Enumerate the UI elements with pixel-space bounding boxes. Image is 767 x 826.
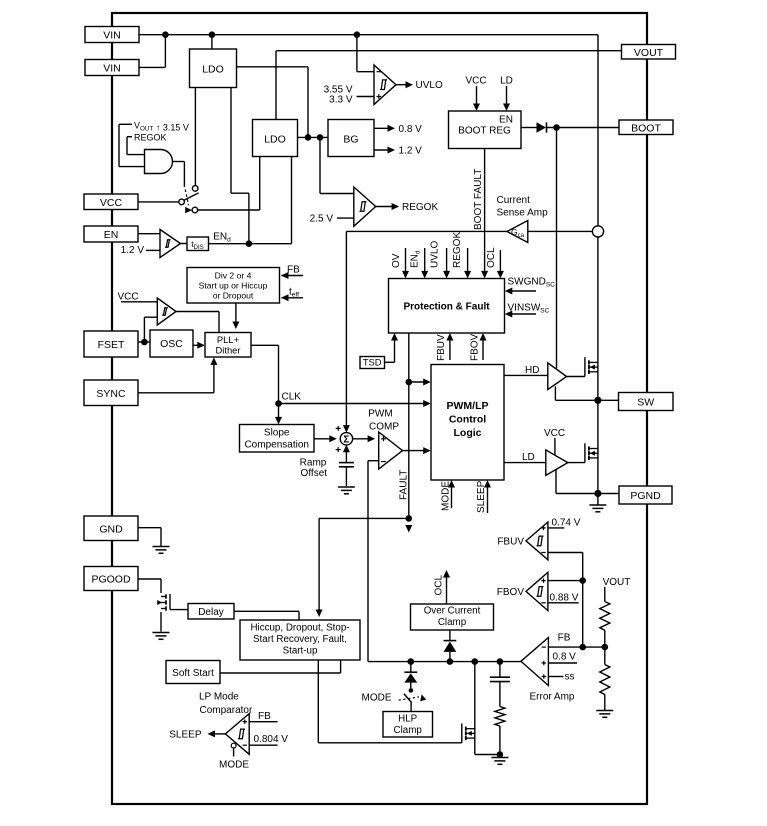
node FBOV tap — [579, 577, 586, 584]
node FAULT taps — [406, 379, 413, 386]
resistor feedback bottom — [600, 665, 610, 695]
svg-text:OCL: OCL — [434, 575, 445, 596]
svg-text:or Dropout: or Dropout — [213, 290, 254, 300]
svg-text:FBUV: FBUV — [497, 536, 524, 547]
wire COMP to PWM comparator minus — [368, 460, 379, 462]
wire SLEEP output — [211, 733, 225, 735]
wire AND inputs bracket REGOK — [127, 136, 132, 138]
wire REGOK comparator output — [376, 206, 396, 208]
wire FBUV stub into protection bottom — [449, 337, 451, 361]
switch VCC source select — [184, 193, 199, 200]
transistor HLP clamp FET — [466, 728, 475, 730]
diode over current clamp — [444, 642, 457, 652]
svg-text:Error Amp: Error Amp — [529, 692, 574, 703]
block BG bandgap — [328, 120, 374, 157]
comparator FSET VCC — [157, 298, 176, 325]
resistor COMP network — [495, 707, 505, 727]
node RC bottom — [497, 751, 504, 758]
comparator EN 1.2V — [160, 230, 181, 258]
svg-text:VIN: VIN — [103, 30, 121, 42]
wire HD driver return to SW — [554, 386, 556, 400]
svg-text:OCL: OCL — [486, 247, 497, 268]
svg-text:ss: ss — [565, 672, 575, 683]
svg-text:0.8 V: 0.8 V — [553, 652, 577, 663]
svg-text:FAULT: FAULT — [399, 470, 410, 500]
wire EN comparator to tDIS — [181, 243, 188, 245]
wire switch lower throw to LDO2 — [198, 209, 260, 211]
pin VCC — [84, 194, 138, 210]
ground feedback divider — [596, 710, 613, 712]
wire LDO1 to switch upper throw — [194, 88, 196, 186]
svg-text:FBOV: FBOV — [497, 587, 525, 598]
pin VIN (second) — [85, 60, 139, 76]
svg-text:Sense Amp: Sense Amp — [497, 208, 549, 219]
svg-text:LD: LD — [500, 76, 513, 87]
wire VOUT feed to internal LDO — [276, 50, 622, 52]
wire SLEEP stub into PWM logic — [487, 484, 489, 514]
wire PGND to pin and ground — [598, 493, 619, 495]
wire Div block to PLL — [235, 303, 237, 326]
svg-text:2.5 V: 2.5 V — [310, 214, 334, 225]
transistor PGOOD FET — [161, 596, 166, 598]
svg-text:SLEEP: SLEEP — [169, 729, 202, 740]
svg-text:PWM: PWM — [368, 408, 392, 419]
svg-text:VCC: VCC — [544, 428, 565, 439]
node COMP line junctions — [408, 658, 415, 665]
svg-text:Start up or Hiccup: Start up or Hiccup — [199, 280, 268, 290]
node FB — [579, 644, 586, 651]
wire teff stub to Div block — [282, 297, 304, 299]
wire FB node to divider — [548, 646, 604, 648]
svg-text:Current: Current — [497, 195, 531, 206]
block Protection & Fault — [389, 279, 505, 334]
wire FAULT to hiccup block — [319, 517, 409, 519]
wire mode clamp diode branch — [410, 662, 412, 673]
wire mode switch to HLP clamp — [410, 702, 412, 712]
svg-text:REGOK: REGOK — [402, 202, 438, 213]
wire FBOV stub into protection bottom — [482, 337, 484, 361]
comparator FBOV 0.88V — [526, 572, 548, 610]
wire FB column up to FBOV/FBUV — [582, 553, 584, 648]
svg-text:3.3 V: 3.3 V — [329, 95, 353, 106]
svg-text:REGOK: REGOK — [452, 232, 463, 268]
block LDO (VOUT) — [253, 120, 298, 157]
summing junction sigma — [340, 433, 352, 445]
svg-text:REGOK: REGOK — [134, 133, 167, 143]
block Div 2 or 4 — [187, 268, 280, 304]
svg-text:VIN: VIN — [103, 63, 121, 75]
svg-text:HD: HD — [525, 365, 539, 376]
wire ENd net — [209, 243, 292, 245]
svg-text:SYNC: SYNC — [96, 388, 126, 400]
wire FBOV ref stub — [548, 602, 579, 604]
wire PWM comparator output — [403, 450, 428, 452]
svg-text:BOOT FAULT: BOOT FAULT — [473, 169, 484, 230]
wire BOOT REG output to boot diode — [521, 127, 537, 129]
wire UVLO ref input — [357, 96, 375, 98]
wire FB stub to Div block — [282, 275, 304, 277]
svg-text:FBUV: FBUV — [436, 334, 447, 361]
svg-text:SW: SW — [637, 397, 654, 409]
svg-text:BOOT REG: BOOT REG — [458, 126, 511, 137]
wire summing to PWM comparator — [353, 438, 372, 440]
gate driver LD — [546, 450, 568, 476]
ground ramp offset — [338, 486, 355, 488]
pin SYNC — [84, 380, 138, 406]
block HLP Clamp — [383, 712, 433, 738]
svg-text:Slope: Slope — [264, 427, 290, 438]
wire boot rail to HD driver — [556, 128, 558, 369]
svg-text:LP Mode: LP Mode — [199, 692, 239, 703]
svg-text:PGOOD: PGOOD — [91, 574, 131, 586]
ground GND pin — [153, 546, 170, 548]
wire PLL output CLK — [251, 344, 279, 346]
svg-text:Soft Start: Soft Start — [172, 668, 214, 679]
AND gate VCC select — [145, 150, 173, 174]
wire VCC into BOOT REG — [476, 86, 478, 108]
wire PGOOD pin to fet — [138, 578, 161, 580]
wire LDO1 top feed — [211, 35, 213, 49]
outer chip boundary — [112, 13, 647, 804]
ground PGND — [589, 504, 606, 506]
svg-text:VOUT: VOUT — [634, 47, 664, 59]
gate driver HD — [548, 363, 567, 390]
comparator PWM COMP — [379, 432, 403, 469]
pin PGND — [619, 486, 672, 504]
svg-text:VOUT: VOUT — [603, 577, 631, 588]
wire HD to high side gate — [504, 374, 548, 376]
wire LD to low side gate — [504, 462, 546, 464]
diode mode clamp — [404, 671, 417, 673]
wire VIN rail to high side drain — [597, 237, 599, 400]
wire FSET comparator tap — [143, 317, 145, 342]
block TSD — [360, 357, 385, 369]
svg-text:FB: FB — [258, 711, 271, 722]
wire switch node to SW pin — [598, 399, 619, 401]
wire ENd stub into protection — [424, 248, 426, 275]
pin SW — [619, 393, 674, 411]
wire EN pin to comparator — [138, 233, 160, 235]
ground COMP network — [491, 757, 508, 759]
svg-text:EN: EN — [499, 115, 513, 126]
wire LDO2 to BG — [298, 136, 329, 138]
svg-text:PGND: PGND — [630, 490, 661, 502]
diode boot — [537, 122, 547, 132]
inversion bubble MODE input — [231, 743, 236, 748]
pin FSET — [84, 331, 138, 357]
wire FAULT from protection — [408, 333, 410, 518]
svg-text:Delay: Delay — [198, 607, 224, 618]
block Over Current Clamp — [411, 604, 494, 630]
block Slope Compensation — [240, 425, 315, 453]
svg-text:MODE: MODE — [219, 760, 249, 771]
node SW — [594, 397, 601, 404]
svg-text:0.74 V: 0.74 V — [552, 518, 581, 529]
pin VIN (top) — [85, 27, 139, 43]
wire REGOK stub into protection — [467, 248, 469, 275]
svg-text:Ramp: Ramp — [300, 457, 327, 468]
wire FSET to OSC — [138, 341, 150, 343]
wire Delay to hiccup block — [234, 610, 299, 612]
wire VIN2 to rail — [139, 66, 165, 68]
wire slope comp to summing — [314, 438, 333, 440]
wire OSC to PLL — [193, 344, 201, 346]
comparator FBUV 0.74V — [526, 522, 548, 560]
svg-text:FBOV: FBOV — [470, 333, 481, 361]
wire OV stub into protection — [405, 248, 407, 275]
svg-text:VCC: VCC — [100, 197, 123, 209]
wire COMP fet branch — [474, 662, 476, 755]
wire soft start to hiccup block — [220, 672, 341, 674]
svg-text:Clamp: Clamp — [394, 725, 423, 736]
svg-text:Clamp: Clamp — [438, 617, 467, 628]
svg-text:CLK: CLK — [282, 391, 302, 402]
wire OCL stub from clamp — [446, 574, 448, 605]
pin PGOOD — [84, 567, 138, 591]
wire VCC rail to REGOK comparator — [319, 137, 321, 193]
svg-text:LD: LD — [522, 452, 535, 463]
op-amp error amplifier — [521, 638, 549, 686]
block Delay — [188, 604, 234, 620]
comparator LP mode — [225, 714, 249, 755]
svg-text:BOOT: BOOT — [631, 123, 661, 135]
wire LP mode comparator FB input — [249, 721, 277, 723]
wire AND output to switch — [173, 161, 185, 163]
svg-text:Logic: Logic — [454, 427, 482, 439]
wire protection to PWM logic — [409, 381, 427, 383]
wire COMP line to error amp — [368, 661, 521, 663]
node VCC rail junctions — [305, 134, 312, 141]
node ENd — [246, 240, 253, 247]
node PGND — [594, 490, 601, 497]
wire current sense output to summing node — [346, 230, 507, 232]
wire CLK to PWM logic — [279, 403, 428, 405]
svg-text:1.2 V: 1.2 V — [399, 146, 423, 157]
svg-text:HLP: HLP — [398, 714, 418, 725]
wire MODE stub into PWM logic — [451, 484, 453, 509]
svg-text:COMP: COMP — [369, 421, 399, 432]
wire ramp offset into summing — [345, 448, 347, 462]
wire over current clamp diode — [449, 629, 451, 640]
capacitor ramp offset — [339, 462, 354, 464]
wire FAULT stub arrow — [405, 525, 412, 533]
block PLL+Dither — [205, 333, 251, 358]
wire VINSW_SC stub into protection — [508, 313, 536, 315]
svg-text:PWM/LP: PWM/LP — [447, 400, 489, 412]
wire AND inputs bracket VOUT 3.15V — [119, 123, 132, 125]
wire FBUV ref stub — [548, 527, 564, 529]
pin GND — [84, 516, 138, 541]
node boot diode junction — [553, 124, 560, 131]
svg-text:LDO: LDO — [202, 64, 224, 76]
pin EN — [84, 226, 138, 242]
svg-text:Div 2 or 4: Div 2 or 4 — [215, 270, 252, 280]
wire LDO1 enable ENd path — [230, 88, 232, 194]
wire 1.2V ref to EN comparator — [146, 249, 160, 251]
transistor low side FET — [589, 448, 598, 450]
wire VCC to FSET comparator — [121, 301, 157, 303]
wire UVLO sense from VIN rail — [356, 35, 358, 72]
wire current sense input — [528, 230, 593, 232]
svg-text:Protection & Fault: Protection & Fault — [403, 301, 490, 312]
svg-text:FSET: FSET — [98, 339, 125, 351]
svg-text:FB: FB — [287, 264, 300, 275]
block Hiccup Dropout — [240, 620, 360, 660]
svg-text:GND: GND — [99, 524, 123, 536]
wire TSD to protection block — [385, 361, 395, 363]
block BOOT REG — [449, 111, 522, 149]
svg-text:UVLO: UVLO — [416, 80, 443, 91]
wire high side fet source through low side to PGND — [597, 400, 599, 493]
svg-text:Compensation: Compensation — [244, 439, 308, 450]
ground PGOOD FET — [153, 632, 170, 634]
block OSC — [150, 330, 193, 357]
wire FSET comparator output to PLL — [176, 311, 219, 313]
resistor feedback top — [600, 602, 610, 631]
svg-text:LDO: LDO — [264, 134, 286, 146]
op-amp current sense Gca — [507, 221, 528, 243]
wire hiccup to HLP fet gate — [317, 660, 319, 743]
wire 2.5V ref to REGOK comparator — [337, 217, 354, 219]
wire ramp offset cap to ground — [345, 467, 347, 486]
pin BOOT — [619, 120, 673, 135]
wire UVLO output — [396, 84, 410, 86]
block tDIS — [187, 237, 209, 251]
svg-text:EN: EN — [104, 229, 119, 241]
wire LD into BOOT REG — [506, 86, 508, 108]
wire VCC to LD driver — [554, 438, 556, 455]
wire GND pin to ground — [138, 527, 161, 529]
wire SWGND_SC stub into protection — [508, 290, 536, 292]
svg-text:PLL+: PLL+ — [217, 334, 240, 345]
svg-text:SLEEP: SLEEP — [476, 480, 487, 513]
wire UVLO stub into protection — [446, 248, 448, 275]
wire BG output 0.8V — [374, 127, 392, 129]
svg-text:Hiccup, Dropout, Stop-: Hiccup, Dropout, Stop- — [250, 622, 349, 633]
svg-text:0.8 V: 0.8 V — [399, 124, 423, 135]
switch MODE (HLP clamp) — [409, 688, 414, 693]
wire VOUT divider — [604, 587, 606, 602]
svg-text:VCC: VCC — [117, 291, 138, 302]
wire VIN rail top — [139, 34, 598, 36]
wire MODE bubble lead — [233, 748, 235, 757]
comparator REGOK 2.5V — [354, 187, 376, 226]
svg-text:Start Recovery, Fault,: Start Recovery, Fault, — [253, 634, 347, 645]
comparator UVLO U-V lockout — [374, 65, 396, 105]
node VIN rail junctions — [162, 31, 169, 38]
svg-text:VCC: VCC — [465, 76, 486, 87]
wire LP mode comparator ref input — [249, 744, 277, 746]
wire PGOOD fet source to ground — [160, 612, 162, 632]
wire LDO1 output to VCC rail — [237, 66, 309, 68]
svg-text:0.804 V: 0.804 V — [254, 734, 289, 745]
wire BOOT FAULT — [484, 149, 486, 275]
block Soft Start — [166, 661, 220, 684]
wire SYNC to PLL — [138, 392, 214, 394]
pin VOUT — [622, 45, 676, 60]
svg-text:OV: OV — [391, 253, 402, 268]
wire BG output 1.2V — [374, 149, 392, 151]
wire COMP RC branch — [499, 662, 501, 677]
svg-text:Start-up: Start-up — [283, 645, 318, 656]
svg-text:UVLO: UVLO — [430, 241, 441, 268]
svg-text:Control: Control — [449, 414, 486, 426]
svg-text:Comparator: Comparator — [200, 705, 253, 716]
wire FBOV plus input tap — [548, 580, 583, 582]
wire error amp ref stub — [548, 662, 577, 664]
wire error amp ss stub — [548, 676, 563, 678]
wire boot diode to BOOT pin — [547, 127, 619, 129]
svg-text:FB: FB — [558, 633, 571, 644]
svg-text:OSC: OSC — [160, 338, 183, 350]
svg-text:Dither: Dither — [215, 345, 240, 356]
wire CLK to slope compensation — [278, 404, 280, 421]
capacitor COMP network — [490, 676, 510, 678]
svg-text:MODE: MODE — [362, 693, 392, 704]
svg-text:BG: BG — [343, 134, 358, 146]
svg-text:Σ: Σ — [343, 435, 349, 446]
svg-text:1.2 V: 1.2 V — [121, 245, 145, 256]
transistor high side FET — [589, 361, 598, 363]
node CLK — [275, 400, 282, 407]
block PWM/LP Control Logic — [431, 365, 504, 481]
svg-text:TSD: TSD — [363, 357, 382, 368]
svg-text:Offset: Offset — [301, 468, 328, 479]
block LDO (VIN) — [190, 49, 237, 88]
node FSET tap — [141, 339, 148, 346]
wire OCL stub into protection — [499, 250, 501, 275]
svg-text:MODE: MODE — [441, 481, 452, 511]
sense point circle on VIN-SW path — [592, 226, 603, 237]
svg-text:Over Current: Over Current — [424, 606, 481, 617]
wire LD driver return to PGND — [555, 470, 557, 494]
svg-text:0.88 V: 0.88 V — [550, 593, 579, 604]
wire VCC pin to switch pole — [138, 201, 179, 203]
